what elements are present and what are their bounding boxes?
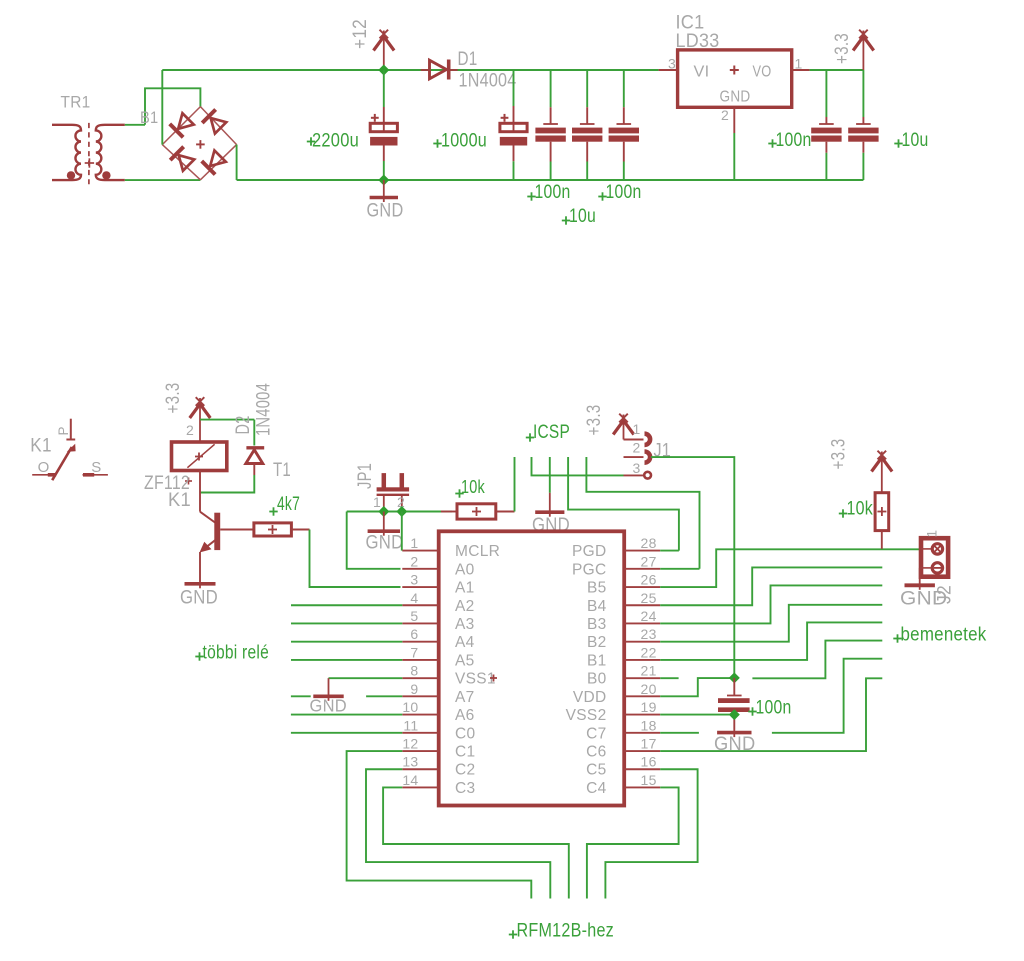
svg-text:10: 10 bbox=[402, 699, 418, 715]
wire bbox=[161, 70, 163, 145]
svg-text:4: 4 bbox=[410, 590, 418, 606]
wire B1 bbox=[660, 622, 882, 660]
svg-text:VDD: VDD bbox=[573, 689, 607, 706]
svg-text:VSS2: VSS2 bbox=[566, 707, 607, 724]
pin 5 A3 bbox=[402, 608, 474, 633]
svg-text:A4: A4 bbox=[455, 634, 475, 651]
pin 6 A4 bbox=[402, 626, 474, 651]
junction bbox=[378, 174, 389, 185]
svg-text:S: S bbox=[91, 459, 101, 476]
jumper JP1 bbox=[377, 473, 410, 511]
pin 9 A7 bbox=[402, 681, 474, 706]
svg-text:100n: 100n bbox=[606, 181, 642, 203]
wire bbox=[162, 69, 658, 71]
svg-text:8: 8 bbox=[410, 663, 418, 679]
wire PGD bbox=[660, 550, 679, 552]
svg-text:23: 23 bbox=[641, 626, 657, 642]
capacitor C 1000u bbox=[500, 70, 527, 180]
value 10u bbox=[562, 205, 596, 227]
svg-text:A7: A7 bbox=[455, 689, 475, 706]
wire bbox=[125, 124, 145, 126]
capacitor C2 100n/10u bbox=[572, 70, 602, 180]
svg-text:LD33: LD33 bbox=[676, 30, 720, 52]
svg-text:25: 25 bbox=[641, 590, 657, 606]
label bemenetek bbox=[893, 624, 986, 646]
svg-text:1: 1 bbox=[373, 494, 381, 510]
svg-text:TR1: TR1 bbox=[61, 94, 91, 112]
wire A0 bbox=[347, 512, 401, 569]
svg-text:C2: C2 bbox=[455, 762, 475, 779]
svg-text:A5: A5 bbox=[455, 652, 475, 669]
wire B3 bbox=[660, 585, 882, 623]
label RFM12B-hez bbox=[509, 920, 614, 942]
wire B0 stub bbox=[660, 677, 678, 679]
wire ICSP 4 PGD bbox=[568, 457, 679, 551]
value 10k bbox=[455, 477, 485, 498]
svg-text:+12: +12 bbox=[350, 19, 371, 49]
ground VSS1 bbox=[328, 678, 330, 701]
svg-text:10k: 10k bbox=[461, 477, 486, 497]
svg-text:+3.3: +3.3 bbox=[163, 383, 184, 414]
pin 18 C7 bbox=[586, 717, 660, 742]
svg-text:100n: 100n bbox=[776, 129, 812, 151]
supply +3.3 J1 bbox=[623, 415, 625, 440]
wire pin2 gnd bbox=[733, 107, 735, 180]
supply +3.3 10k bbox=[881, 452, 883, 493]
svg-text:16: 16 bbox=[641, 754, 657, 770]
origin cross U1 bbox=[490, 677, 497, 679]
svg-text:3: 3 bbox=[633, 460, 641, 476]
wire bbox=[145, 88, 200, 125]
svg-text:MCLR: MCLR bbox=[455, 543, 500, 560]
pin 20 VDD bbox=[573, 681, 660, 706]
svg-text:B0: B0 bbox=[587, 671, 607, 688]
svg-text:1N4004: 1N4004 bbox=[459, 71, 517, 92]
junction VSS2 bbox=[729, 709, 740, 720]
resistor R 4k7 bbox=[220, 523, 309, 536]
wire B2 bbox=[660, 605, 882, 642]
svg-text:VSS1: VSS1 bbox=[455, 671, 496, 688]
wire bbox=[236, 145, 238, 180]
pin 26 B5 bbox=[587, 572, 660, 597]
svg-text:19: 19 bbox=[641, 699, 657, 715]
wire ICSP 3 bbox=[549, 457, 551, 493]
svg-text:C0: C0 bbox=[455, 725, 475, 742]
ground bbox=[370, 180, 398, 202]
capacitor C 100n right bbox=[811, 70, 841, 180]
svg-text:A6: A6 bbox=[455, 707, 475, 724]
pin 13 C2 bbox=[402, 754, 475, 779]
svg-text:10k: 10k bbox=[847, 499, 874, 520]
diode D2 bbox=[246, 448, 264, 475]
svg-text:C3: C3 bbox=[455, 780, 475, 797]
svg-text:11: 11 bbox=[403, 717, 418, 733]
svg-text:100n: 100n bbox=[756, 697, 792, 719]
svg-text:A3: A3 bbox=[455, 616, 475, 633]
svg-text:1: 1 bbox=[410, 535, 418, 551]
svg-text:P: P bbox=[56, 426, 71, 435]
svg-text:K1: K1 bbox=[30, 436, 52, 457]
svg-text:B1: B1 bbox=[140, 109, 159, 127]
supply +3.3 bbox=[862, 31, 864, 71]
svg-text:B2: B2 bbox=[587, 634, 607, 651]
pin 17 C6 bbox=[586, 736, 660, 761]
wire C0 bbox=[291, 732, 402, 734]
capacitor C1 100n/10u bbox=[535, 70, 565, 180]
svg-text:14: 14 bbox=[402, 772, 418, 788]
svg-text:5: 5 bbox=[410, 608, 418, 624]
svg-text:J2: J2 bbox=[935, 585, 956, 604]
wire C5 bbox=[605, 769, 697, 898]
pin 16 C5 bbox=[586, 754, 660, 779]
relay contact K1 bbox=[32, 419, 108, 481]
pin 7 A5 bbox=[402, 644, 474, 669]
wire J1 pin2 bbox=[651, 457, 734, 678]
svg-text:15: 15 bbox=[641, 772, 657, 788]
wire C1 bbox=[347, 751, 532, 898]
junction VDD bbox=[729, 672, 740, 683]
capacitor C 10u right bbox=[848, 70, 878, 180]
svg-text:T1: T1 bbox=[273, 460, 291, 481]
pin 12 C1 bbox=[402, 736, 475, 761]
svg-text:GND: GND bbox=[367, 201, 404, 222]
svg-text:+3.3: +3.3 bbox=[829, 439, 850, 470]
value 100n bbox=[527, 181, 570, 203]
svg-text:többi relé: többi relé bbox=[203, 643, 270, 664]
pin 10 A6 bbox=[402, 699, 474, 724]
pin 2 A0 bbox=[402, 553, 474, 578]
svg-text:PGD: PGD bbox=[572, 543, 607, 560]
svg-text:K1: K1 bbox=[168, 490, 191, 511]
svg-text:GND: GND bbox=[310, 696, 348, 716]
wire bbox=[253, 420, 255, 446]
svg-text:B5: B5 bbox=[587, 580, 607, 597]
pin 21 B0 bbox=[587, 663, 660, 688]
svg-text:13: 13 bbox=[402, 754, 418, 770]
transistor T1 bbox=[200, 471, 221, 582]
wire C7 bbox=[772, 659, 882, 733]
svg-text:C7: C7 bbox=[586, 725, 606, 742]
wire C7 stub bbox=[660, 732, 699, 734]
wire C2 bbox=[366, 769, 550, 898]
svg-text:GND: GND bbox=[720, 89, 751, 106]
wire C6 bbox=[660, 678, 882, 751]
svg-text:1000u: 1000u bbox=[441, 130, 487, 152]
pin 8 VSS1 bbox=[402, 663, 496, 688]
pin 19 VSS2 bbox=[566, 699, 661, 724]
svg-text:B3: B3 bbox=[587, 616, 607, 633]
svg-text:2: 2 bbox=[186, 422, 194, 438]
svg-text:24: 24 bbox=[641, 608, 657, 624]
wire A3 bbox=[291, 622, 402, 624]
svg-text:A0: A0 bbox=[455, 561, 475, 578]
svg-text:2200u: 2200u bbox=[312, 130, 359, 152]
pin 25 B4 bbox=[587, 590, 660, 615]
svg-text:ICSP: ICSP bbox=[533, 422, 570, 443]
svg-text:GND: GND bbox=[180, 588, 218, 609]
svg-text:bemenetek: bemenetek bbox=[901, 624, 987, 646]
svg-text:J1: J1 bbox=[654, 441, 672, 462]
wire C3 bbox=[383, 787, 569, 898]
wire bbox=[125, 179, 201, 181]
value 100n bbox=[768, 129, 811, 151]
label tobbi rele bbox=[195, 643, 269, 664]
svg-text:D1: D1 bbox=[458, 49, 478, 70]
wire ICSP 2 bbox=[532, 457, 624, 475]
capacitor C 100n VDD bbox=[718, 678, 750, 730]
svg-text:+3.3: +3.3 bbox=[832, 33, 853, 64]
ground J2 bbox=[919, 584, 921, 590]
value 10k bbox=[839, 499, 873, 520]
svg-text:+3.3: +3.3 bbox=[584, 405, 605, 436]
capacitor C3 100n/10u bbox=[609, 70, 639, 180]
svg-text:C5: C5 bbox=[586, 762, 606, 779]
svg-text:PGC: PGC bbox=[572, 561, 607, 578]
value 4k7 bbox=[269, 494, 300, 516]
svg-text:10u: 10u bbox=[569, 205, 596, 227]
wire ICSP 1 bbox=[514, 457, 516, 512]
pin 14 C3 bbox=[402, 772, 475, 797]
svg-text:1N4004: 1N4004 bbox=[254, 383, 275, 436]
label ICSP bbox=[526, 422, 570, 443]
svg-text:4k7: 4k7 bbox=[277, 494, 300, 515]
pin 1 MCLR bbox=[402, 535, 500, 560]
IC U1 PIC 28-pin bbox=[439, 531, 625, 805]
svg-text:A2: A2 bbox=[455, 598, 475, 615]
svg-text:JP1: JP1 bbox=[355, 463, 376, 489]
pin 28 PGD bbox=[572, 535, 660, 560]
junction bbox=[378, 64, 389, 75]
wire A6 bbox=[291, 714, 402, 716]
svg-text:B4: B4 bbox=[587, 598, 607, 615]
relay coil K1 ZF112 bbox=[172, 442, 227, 485]
svg-text:22: 22 bbox=[641, 644, 657, 660]
connector J2 bbox=[920, 538, 948, 583]
value 100n bbox=[598, 181, 641, 203]
svg-text:VO: VO bbox=[753, 64, 772, 81]
pin 3 A1 bbox=[402, 572, 474, 597]
svg-text:26: 26 bbox=[641, 572, 657, 588]
wire pin1 stub bbox=[792, 69, 810, 71]
pin 23 B2 bbox=[587, 626, 660, 651]
svg-text:A1: A1 bbox=[455, 580, 475, 597]
svg-text:C6: C6 bbox=[586, 744, 606, 761]
wire bbox=[200, 419, 254, 421]
wire VSS1 bbox=[329, 677, 403, 679]
svg-text:18: 18 bbox=[641, 717, 657, 733]
svg-text:6: 6 bbox=[410, 626, 418, 642]
ground 100n bbox=[733, 730, 735, 738]
capacitor C 2200u bbox=[370, 70, 397, 180]
wire A5 bbox=[291, 659, 402, 661]
value 10u bbox=[894, 129, 928, 151]
connector J1 bbox=[624, 434, 651, 479]
ground ICSP bbox=[549, 493, 551, 517]
svg-text:2: 2 bbox=[410, 553, 418, 569]
wire VDD bbox=[660, 678, 734, 696]
svg-text:C4: C4 bbox=[586, 780, 606, 797]
svg-text:12: 12 bbox=[402, 736, 418, 752]
svg-text:10u: 10u bbox=[902, 129, 929, 151]
pin 4 A2 bbox=[402, 590, 474, 615]
bridge rectifier B1 bbox=[162, 107, 236, 180]
ground JP1 bbox=[383, 512, 385, 536]
svg-text:2: 2 bbox=[721, 107, 729, 123]
transformer TR1 bbox=[52, 123, 125, 184]
pin 22 B1 bbox=[587, 644, 660, 669]
wire bbox=[810, 69, 864, 71]
value 1000u bbox=[433, 130, 487, 152]
svg-text:27: 27 bbox=[641, 553, 657, 569]
svg-text:20: 20 bbox=[641, 681, 657, 697]
resistor R 10k bbox=[441, 504, 515, 519]
svg-text:RFM12B-hez: RFM12B-hez bbox=[517, 920, 615, 942]
svg-text:9: 9 bbox=[410, 681, 418, 697]
svg-text:28: 28 bbox=[641, 535, 657, 551]
wire bbox=[237, 179, 864, 181]
supply +12 bbox=[383, 31, 385, 71]
svg-text:GND: GND bbox=[714, 734, 756, 755]
svg-text:3: 3 bbox=[410, 572, 418, 588]
wire A7 bbox=[291, 695, 311, 697]
wire A7 bbox=[366, 695, 402, 697]
pin 15 C4 bbox=[586, 772, 660, 797]
svg-text:7: 7 bbox=[410, 644, 418, 660]
svg-text:GND: GND bbox=[366, 533, 404, 554]
svg-text:C1: C1 bbox=[455, 744, 475, 761]
svg-text:17: 17 bbox=[641, 736, 657, 752]
wire B4 bbox=[660, 567, 882, 605]
svg-text:2: 2 bbox=[633, 440, 641, 456]
ground bbox=[199, 582, 201, 589]
supply +3.3 relay bbox=[199, 398, 201, 442]
wire pin3 stub bbox=[659, 69, 678, 71]
svg-text:D2: D2 bbox=[233, 416, 254, 435]
wire jumper net bbox=[347, 511, 452, 513]
wire MCLR bbox=[401, 512, 403, 551]
wire A4 bbox=[291, 641, 402, 643]
svg-text:1: 1 bbox=[925, 530, 940, 538]
wire B0 bbox=[752, 641, 882, 679]
svg-text:21: 21 bbox=[641, 663, 657, 679]
pin 27 PGC bbox=[572, 553, 660, 578]
resistor R 10k pullup bbox=[875, 493, 889, 549]
wire A2 bbox=[291, 604, 402, 606]
wire B5 bbox=[660, 549, 921, 587]
value 2200u bbox=[307, 130, 359, 152]
svg-text:100n: 100n bbox=[535, 181, 571, 203]
pin 11 C0 bbox=[402, 717, 475, 742]
voltage regulator IC1 LD33 bbox=[678, 50, 792, 107]
svg-text:O: O bbox=[38, 459, 50, 476]
svg-text:B1: B1 bbox=[587, 652, 607, 669]
wire C4 bbox=[587, 787, 679, 898]
wire A1 bbox=[310, 530, 401, 588]
value 100n bbox=[748, 697, 791, 719]
diode D1 bbox=[421, 60, 458, 80]
svg-text:3: 3 bbox=[668, 56, 676, 72]
wire ICSP 5 PGC bbox=[586, 457, 699, 569]
junction bbox=[396, 506, 407, 517]
svg-text:VI: VI bbox=[694, 64, 710, 81]
junction bbox=[378, 506, 389, 517]
wire VSS2 bbox=[660, 714, 734, 716]
wire bbox=[200, 475, 254, 493]
wire PGC bbox=[660, 568, 699, 570]
pin 24 B3 bbox=[587, 608, 660, 633]
svg-text:1: 1 bbox=[633, 421, 641, 437]
